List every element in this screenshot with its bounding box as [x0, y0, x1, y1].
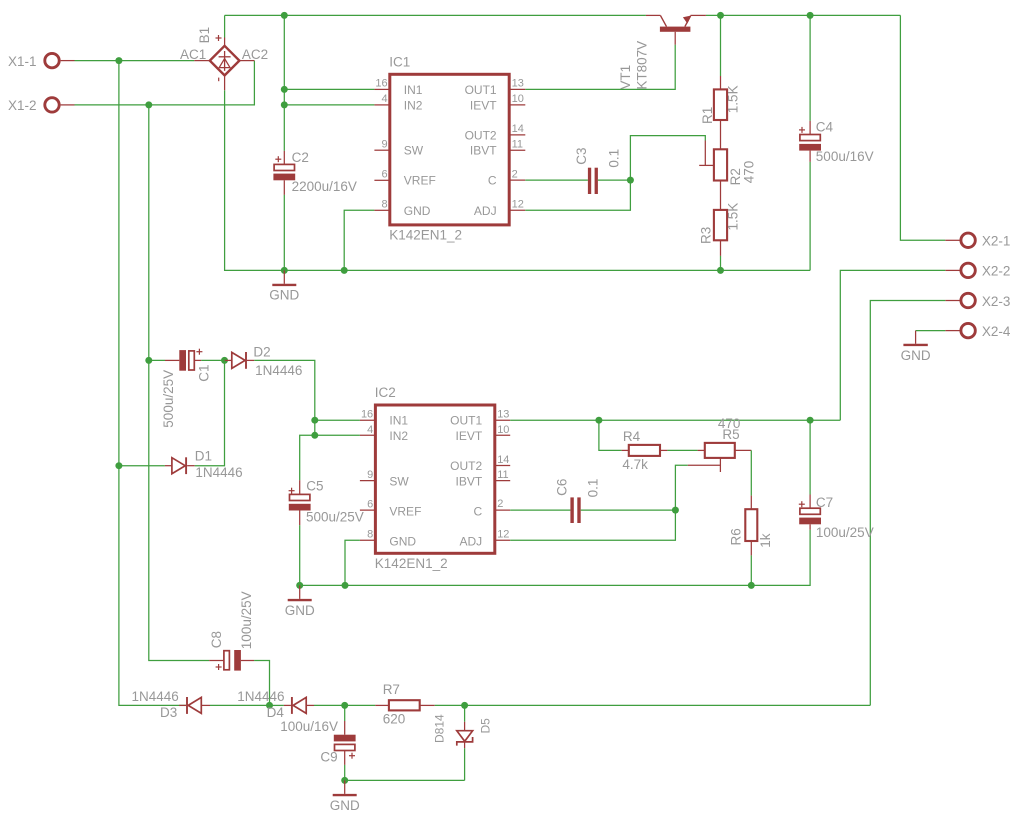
wire top rail	[225, 14, 646, 16]
svg-text:1k: 1k	[758, 533, 773, 548]
junction C1 branch	[145, 357, 152, 364]
wire bottom line left segment	[179, 704, 186, 706]
svg-text:16: 16	[361, 409, 373, 421]
svg-text:6: 6	[381, 169, 387, 181]
junction C6 node	[672, 507, 679, 514]
svg-text:R6: R6	[728, 528, 743, 545]
svg-text:100u/25V: 100u/25V	[816, 525, 874, 540]
pin stub X1-1	[61, 60, 75, 62]
svg-text:12: 12	[497, 529, 509, 541]
wire IN1 row to C2 column	[284, 88, 374, 90]
wire C2 bottom to GND rail	[283, 195, 285, 271]
wire section2 bottom rail	[300, 530, 810, 586]
svg-text:C6: C6	[555, 479, 570, 496]
svg-text:IN1: IN1	[404, 83, 423, 97]
wire R5 right to R6	[750, 450, 752, 495]
ground GND1	[269, 270, 299, 302]
svg-text:11: 11	[497, 469, 508, 481]
pin stub B1 bottom (-)	[224, 75, 226, 90]
svg-text:IN1: IN1	[389, 414, 408, 428]
junction D1 net	[115, 462, 122, 469]
svg-text:GND: GND	[330, 798, 360, 813]
svg-text:AC2: AC2	[242, 47, 268, 62]
wire bottom line right segment	[465, 704, 871, 706]
wire junction up to R2 wiper	[630, 136, 705, 181]
wire top rail right (emitter to X2-1 corner)	[706, 14, 901, 16]
junction node on X1-1 net	[115, 57, 122, 64]
node X2-2 connector	[945, 263, 1010, 279]
svg-text:B1: B1	[197, 27, 212, 44]
svg-text:470: 470	[742, 161, 757, 184]
svg-text:K142EN1_2: K142EN1_2	[375, 556, 448, 571]
svg-text:D1: D1	[195, 448, 212, 463]
svg-text:D2: D2	[253, 344, 270, 359]
wire IN2 row to C2 column	[284, 104, 374, 106]
svg-text:C2: C2	[292, 150, 309, 165]
wire D5 to GND4 line	[464, 748, 466, 780]
pin stub AC2 of B1	[239, 60, 254, 62]
svg-text:C8: C8	[209, 631, 224, 648]
wire IC2 GND pin8 to rail2	[345, 540, 360, 585]
svg-text:1N4446: 1N4446	[132, 689, 179, 704]
svg-text:C: C	[474, 504, 483, 518]
svg-text:X2-2: X2-2	[982, 264, 1011, 279]
wire IC2 pin2 C to C6	[510, 509, 570, 511]
svg-text:10: 10	[512, 93, 524, 105]
wire C5 to rail2	[299, 525, 301, 585]
junction top rail / C2 column	[281, 12, 288, 19]
wire D5 bottom to GND4	[345, 779, 465, 781]
ground GND2	[901, 331, 931, 363]
svg-text:6: 6	[367, 498, 373, 510]
svg-text:OUT2: OUT2	[465, 128, 497, 142]
svg-text:R4: R4	[623, 429, 641, 444]
svg-text:14: 14	[512, 123, 524, 135]
wire to D4	[270, 704, 284, 706]
svg-text:C: C	[488, 174, 497, 188]
svg-text:2200u/16V: 2200u/16V	[292, 179, 357, 194]
svg-text:11: 11	[512, 139, 523, 151]
svg-text:AC1: AC1	[180, 47, 206, 62]
svg-text:C7: C7	[816, 495, 833, 510]
svg-text:R1: R1	[700, 107, 715, 124]
svg-text:12: 12	[512, 199, 524, 211]
junction IN2 row	[311, 432, 318, 439]
node X2-3 connector	[945, 293, 1010, 309]
node X2-1 connector	[945, 233, 1010, 249]
junction GND4 node	[341, 777, 348, 784]
wire D4 to C9 junction	[314, 704, 345, 706]
svg-text:D3: D3	[160, 705, 177, 720]
svg-text:8: 8	[367, 529, 373, 541]
junction bottom line / D5	[461, 702, 468, 709]
svg-text:OUT1: OUT1	[465, 83, 497, 97]
wire X2-4 to GND2	[916, 330, 946, 332]
svg-text:1N4446: 1N4446	[255, 363, 302, 378]
svg-text:X2-3: X2-3	[982, 294, 1011, 309]
svg-text:IN2: IN2	[404, 98, 423, 112]
svg-text:K142EN1_2: K142EN1_2	[389, 227, 462, 242]
wire X2-2 to IC2 OUT1 line	[840, 270, 945, 420]
svg-text:GND: GND	[285, 603, 315, 618]
capacitor C3 0.1	[574, 148, 621, 194]
svg-text:9: 9	[381, 139, 387, 151]
wire C1 branch	[149, 359, 165, 361]
junction IN1 row / C2 column	[281, 86, 288, 93]
svg-text:SW: SW	[389, 474, 409, 488]
ground GND4	[330, 780, 360, 813]
pin stub X1-2	[61, 104, 75, 106]
svg-text:1N4446: 1N4446	[237, 689, 284, 704]
diode D2 1N4446	[225, 344, 303, 377]
op-amp/regulator IC1 K142EN1_2	[374, 54, 525, 242]
wire C8 to bottom line	[254, 661, 269, 706]
ground GND3	[285, 585, 315, 618]
wire C4 bottom to rail	[809, 162, 811, 271]
junction rail2 / C5 / GND3	[296, 582, 303, 589]
capacitor C1 500u/25V	[161, 349, 212, 428]
wire C6 to junction	[581, 509, 676, 511]
svg-text:500u/25V: 500u/25V	[161, 370, 176, 428]
junction C1/D1/D2	[221, 357, 228, 364]
svg-text:620: 620	[383, 711, 406, 726]
svg-text:ADJ: ADJ	[474, 204, 497, 218]
junction OUT1 / R4	[595, 417, 602, 424]
svg-text:X2-4: X2-4	[982, 324, 1011, 339]
resistor R4 4.7k	[622, 429, 668, 472]
svg-text:4: 4	[367, 424, 373, 436]
svg-text:C4: C4	[816, 120, 834, 135]
resistor R7 620	[375, 682, 434, 726]
wire D3 to C8 junction	[210, 704, 270, 706]
capacitor C8 100u/25V	[209, 591, 254, 670]
junction OUT1 / C7	[807, 417, 814, 424]
svg-text:8: 8	[381, 199, 387, 211]
capacitor C4 500u/16V	[799, 15, 874, 163]
junction top rail / C4	[807, 12, 814, 19]
svg-text:GND: GND	[269, 288, 299, 303]
diode D3 1N4446	[132, 689, 211, 720]
wire D2 to IC2 IN1	[254, 360, 314, 435]
svg-text:4: 4	[381, 93, 387, 105]
svg-text:OUT1: OUT1	[450, 414, 482, 428]
svg-text:500u/16V: 500u/16V	[816, 149, 874, 164]
pin stub B1 top (+)	[224, 38, 226, 46]
wire R6 to rail2	[750, 555, 752, 585]
wire IC1 GND pin8 to rail	[344, 210, 374, 270]
wire R4 to R5	[667, 449, 697, 451]
wire X2-1 drop	[900, 15, 945, 240]
svg-text:D4: D4	[267, 705, 285, 720]
svg-text:14: 14	[497, 454, 509, 466]
svg-text:VT1: VT1	[618, 65, 633, 90]
svg-text:D5: D5	[478, 718, 492, 734]
svg-text:X1-2: X1-2	[8, 98, 37, 113]
svg-text:VREF: VREF	[404, 174, 436, 188]
wire C2 column upper	[283, 15, 285, 151]
svg-text:SW: SW	[404, 144, 424, 158]
svg-text:R5: R5	[722, 427, 739, 442]
potentiometer R5 470	[688, 416, 752, 472]
junction IN2 row / C2 column	[281, 101, 288, 108]
svg-text:IEVT: IEVT	[456, 429, 483, 443]
svg-text:0.1: 0.1	[586, 479, 601, 498]
wire section1 bottom rail	[225, 90, 811, 270]
capacitor C7 100u/25V	[799, 420, 874, 540]
svg-text:4.7k: 4.7k	[622, 457, 648, 472]
wire IN2 row to C5 column	[300, 435, 360, 480]
wire C9 to GND4 junction	[344, 765, 346, 781]
junction rail2 / R6	[748, 582, 755, 589]
svg-text:ADJ: ADJ	[460, 535, 483, 549]
wire R7 to D5 junction	[435, 704, 465, 706]
wire C1 to D2 junction	[201, 359, 224, 361]
svg-text:100u/16V: 100u/16V	[280, 719, 338, 734]
diode D4 1N4446	[237, 689, 314, 720]
pin stub AC1 of B1	[194, 60, 210, 62]
svg-text:13: 13	[512, 78, 524, 90]
svg-text:C5: C5	[306, 479, 323, 494]
wire R4 branch	[599, 420, 622, 450]
svg-text:GND: GND	[389, 535, 416, 549]
zener diode D5 D814	[433, 705, 493, 748]
wire X1-2 to AC2 corner	[75, 61, 255, 105]
junction rail / IC1 GND	[341, 267, 348, 274]
bridge rectifier B1	[180, 27, 268, 81]
svg-text:0.1: 0.1	[607, 149, 622, 168]
svg-text:1N4446: 1N4446	[195, 465, 242, 480]
wire D1 to C1/D2 junction	[195, 360, 225, 465]
svg-text:GND: GND	[404, 204, 431, 218]
svg-text:C3: C3	[574, 148, 589, 165]
wire to R7	[345, 704, 376, 706]
junction rail2 / IC2 GND	[342, 582, 349, 589]
wire R3 to rail	[720, 256, 722, 271]
wire VT1 base to IC1 pin13	[525, 45, 675, 90]
node X2-4 connector	[945, 323, 1011, 339]
wire R5 wiper to C6 junction	[675, 465, 687, 510]
svg-text:1.5K: 1.5K	[726, 85, 741, 113]
op-amp/regulator IC2 K142EN1_2	[360, 385, 510, 571]
svg-text:D814: D814	[433, 714, 447, 743]
junction bottom line / C9	[341, 702, 348, 709]
svg-text:C1: C1	[196, 365, 211, 382]
svg-text:9: 9	[367, 469, 373, 481]
wire X1-1 to B1 AC1	[75, 60, 195, 62]
svg-text:C9: C9	[320, 749, 337, 764]
wire junction down to ADJ pin12	[525, 180, 630, 210]
svg-text:2: 2	[512, 168, 518, 180]
capacitor C5 500u/25V	[289, 479, 364, 526]
svg-text:X1-1: X1-1	[8, 54, 37, 69]
svg-text:13: 13	[497, 409, 509, 421]
capacitor C9 100u/16V	[280, 705, 355, 765]
capacitor C2 2200u/16V	[273, 150, 357, 195]
junction X1-2 net / C1 column	[145, 101, 152, 108]
wire IC2 pin13 OUT1 row	[510, 419, 840, 421]
svg-text:KT807V: KT807V	[634, 41, 649, 90]
svg-text:100u/25V: 100u/25V	[239, 591, 254, 649]
junction C3 node	[627, 177, 634, 184]
resistor R3 1.5k	[699, 181, 741, 256]
junction rail / R3	[717, 267, 724, 274]
node X1-2 connector	[8, 98, 59, 113]
wire left column X1-1 net down to bottom line	[119, 61, 179, 706]
wire X2-3 down to bottom line	[870, 301, 945, 706]
svg-text:VREF: VREF	[389, 504, 421, 518]
wire junction down to ADJ pin12	[510, 510, 675, 540]
svg-text:X2-1: X2-1	[982, 234, 1011, 249]
svg-text:IN2: IN2	[389, 429, 408, 443]
junction rail / C2	[281, 267, 288, 274]
wire C3 to junction	[598, 179, 631, 181]
wire IN1 row	[315, 419, 360, 421]
resistor R6 1k	[728, 496, 772, 556]
svg-text:IBVT: IBVT	[456, 474, 483, 488]
svg-text:10: 10	[497, 424, 509, 436]
svg-text:GND: GND	[901, 348, 931, 363]
svg-text:1.5K: 1.5K	[726, 203, 741, 231]
wire IC1 pin2 C to C3	[525, 179, 588, 181]
svg-text:16: 16	[375, 78, 387, 90]
svg-text:500u/25V: 500u/25V	[306, 510, 364, 525]
potentiometer R2 470	[699, 120, 757, 185]
resistor R1 1.5k	[700, 15, 741, 124]
svg-text:R7: R7	[383, 682, 400, 697]
capacitor C6 0.1	[555, 479, 601, 523]
diode D1 1N4446	[119, 448, 243, 480]
svg-text:IC1: IC1	[389, 54, 410, 69]
junction bottom line / C8	[266, 702, 273, 709]
svg-text:IBVT: IBVT	[470, 144, 497, 158]
node X1-1 connector	[8, 53, 59, 68]
wire B1 top to top rail	[224, 15, 226, 37]
transistor VT1 KT807V	[618, 15, 706, 89]
wire C1 column from X1-2 net down to C8	[149, 105, 209, 661]
junction top rail / R1	[717, 12, 724, 19]
svg-text:2: 2	[497, 498, 503, 510]
svg-text:IC2: IC2	[375, 385, 396, 400]
junction IN1 row	[311, 417, 318, 424]
svg-text:OUT2: OUT2	[450, 459, 482, 473]
svg-text:R3: R3	[699, 227, 714, 244]
svg-text:IEVT: IEVT	[470, 98, 497, 112]
